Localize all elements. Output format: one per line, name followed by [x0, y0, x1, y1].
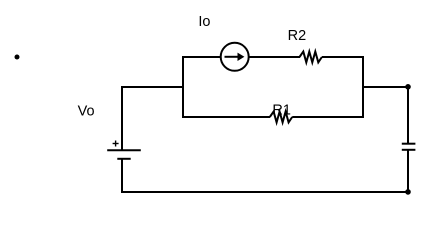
wire (R2 to box right): [322, 56, 364, 58]
wire (R1 to box right): [292, 116, 363, 118]
wire (top, box left to current source): [182, 56, 221, 58]
svg-text:Vo: Vo: [78, 104, 95, 120]
svg-text:Io: Io: [198, 14, 210, 30]
wire (bottom return): [121, 191, 408, 193]
resistor R1: [270, 112, 292, 123]
node (top right junction): [405, 84, 411, 90]
wire (box left vertical): [182, 56, 184, 118]
svg-text:R1: R1: [272, 102, 291, 118]
wire (bottom of box, left to R1): [183, 116, 270, 118]
current source Io: [221, 43, 249, 71]
wire (node down to capacitor): [407, 87, 409, 144]
wire (output, box right to node): [363, 86, 408, 88]
wire (capacitor down to bottom node): [407, 150, 409, 192]
wire (box right vertical): [362, 56, 364, 118]
resistor R2: [300, 52, 322, 63]
capacitor: [402, 144, 416, 150]
bullet: [15, 55, 20, 60]
wire (current source to R2): [249, 56, 300, 58]
wire (feed, horizontal to box left): [121, 86, 183, 88]
svg-text:R2: R2: [288, 28, 307, 44]
wire (battery top to feed corner, vertical): [121, 87, 123, 150]
node (bottom right junction): [405, 189, 411, 195]
wire (battery bottom vertical): [121, 159, 123, 193]
battery Vo: [107, 141, 141, 159]
